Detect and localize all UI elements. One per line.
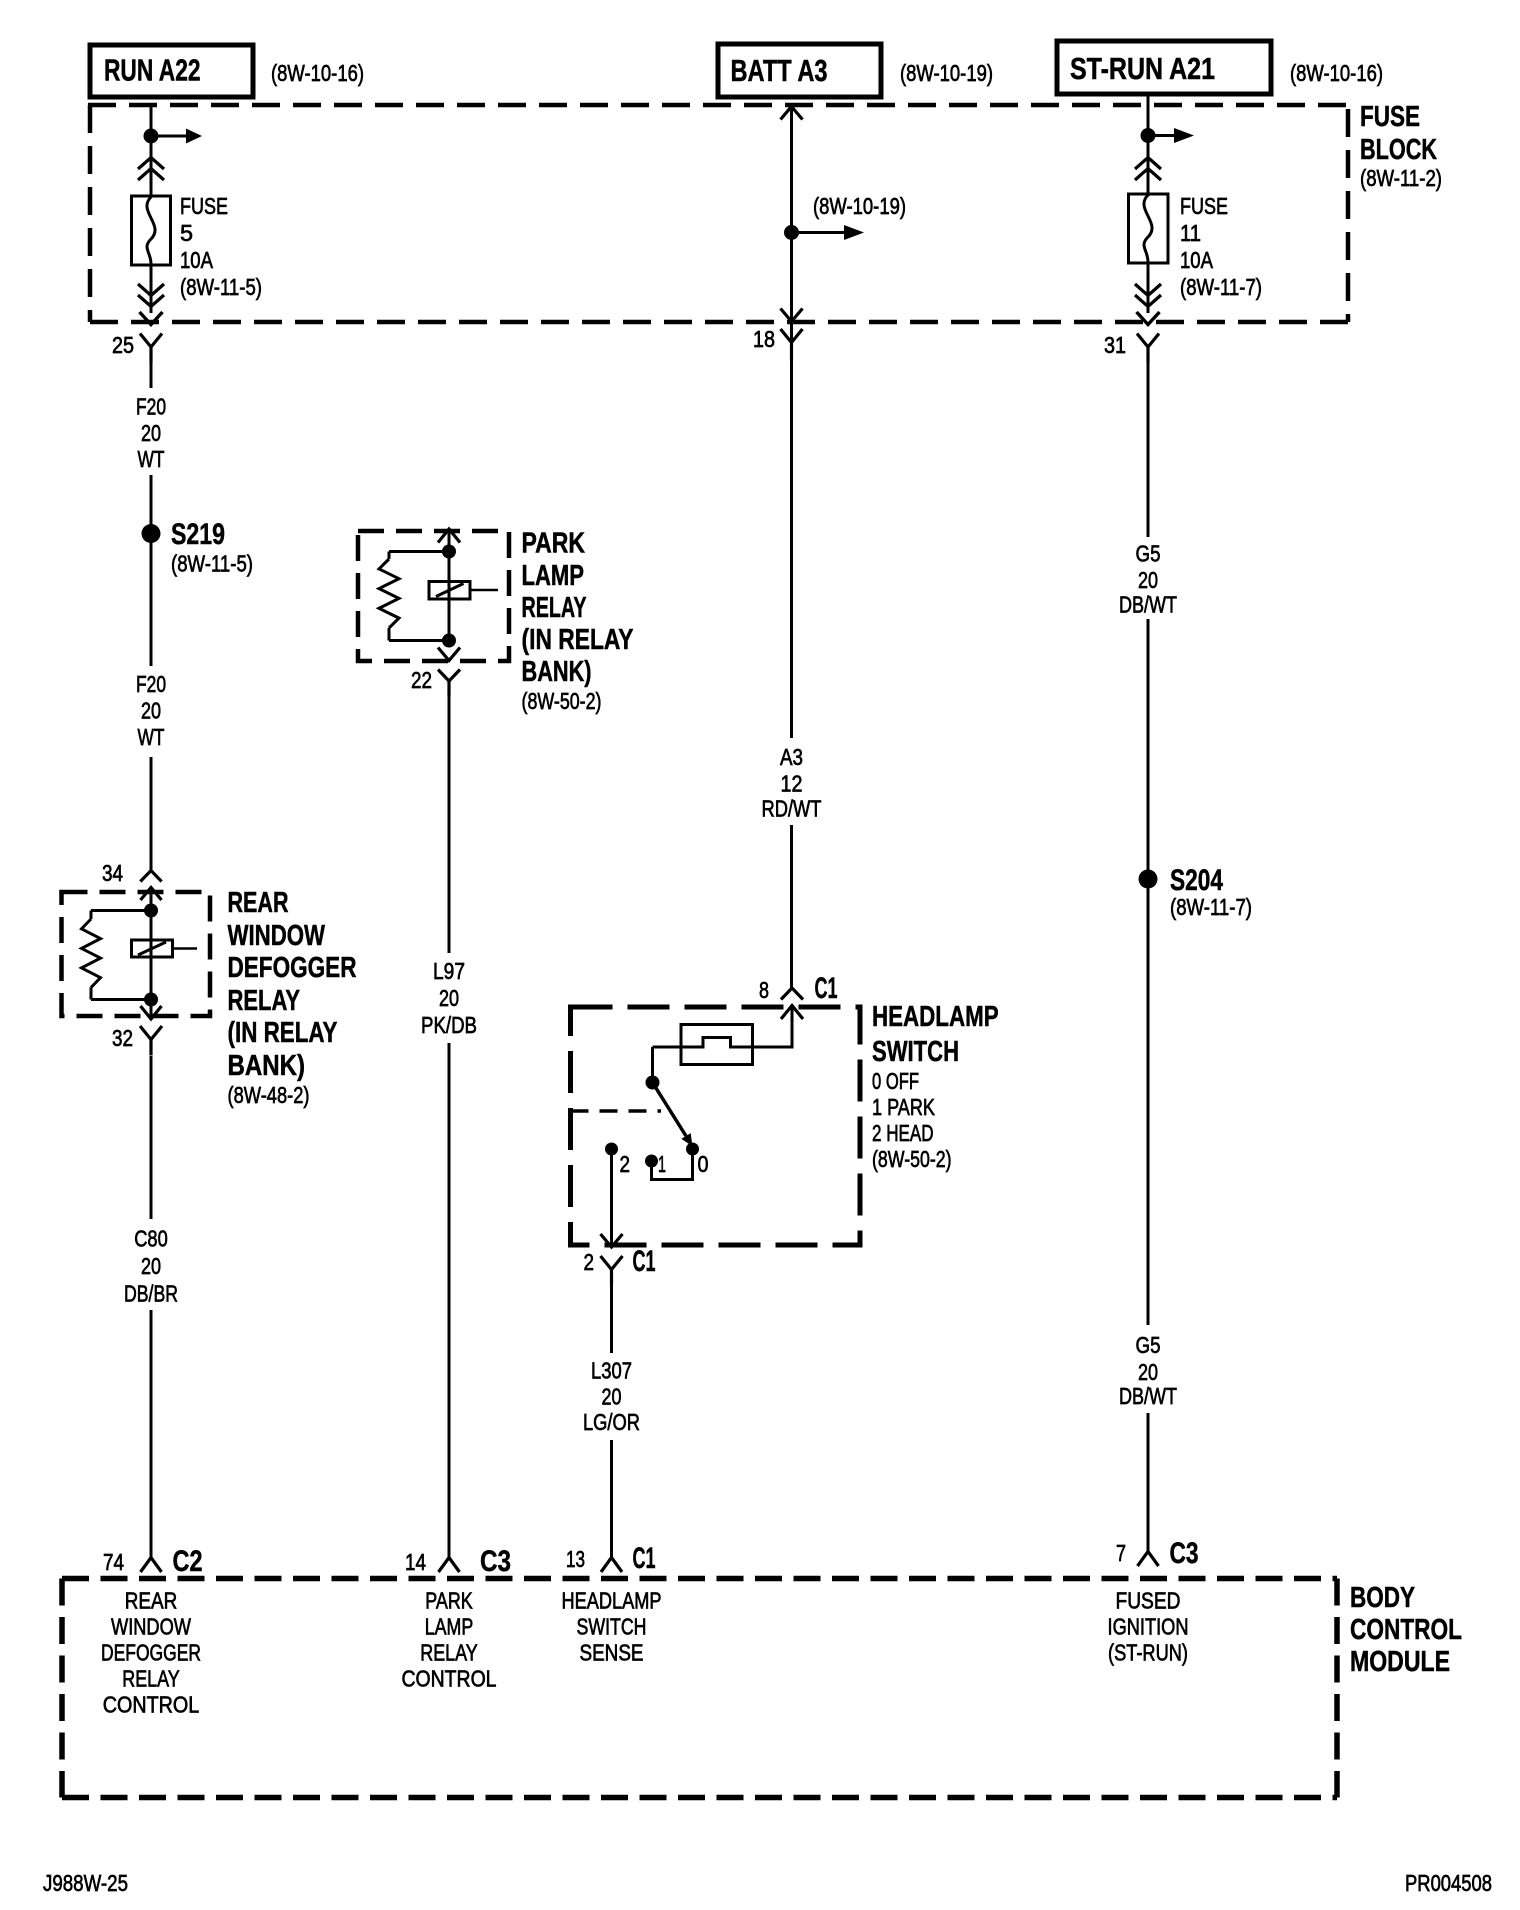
svg-text:25: 25 xyxy=(112,332,134,358)
svg-text:(IN RELAY: (IN RELAY xyxy=(522,624,634,656)
svg-text:FUSED: FUSED xyxy=(1116,1588,1181,1614)
svg-text:SWITCH: SWITCH xyxy=(577,1614,647,1640)
svg-text:C1: C1 xyxy=(815,972,838,1005)
svg-text:IGNITION: IGNITION xyxy=(1108,1614,1189,1640)
svg-text:0: 0 xyxy=(698,1151,709,1177)
svg-text:SWITCH: SWITCH xyxy=(872,1036,959,1068)
svg-text:REAR: REAR xyxy=(228,887,289,919)
svg-text:20: 20 xyxy=(602,1384,622,1410)
svg-text:F20: F20 xyxy=(136,671,166,697)
svg-text:2: 2 xyxy=(584,1249,595,1275)
svg-text:C3: C3 xyxy=(480,1545,511,1578)
svg-text:DB/WT: DB/WT xyxy=(1119,1383,1177,1409)
svg-text:0 OFF: 0 OFF xyxy=(872,1068,919,1094)
svg-text:2 HEAD: 2 HEAD xyxy=(872,1120,934,1146)
svg-text:20: 20 xyxy=(141,1253,161,1279)
svg-text:FUSE: FUSE xyxy=(180,193,228,219)
svg-text:C80: C80 xyxy=(134,1226,168,1252)
svg-text:LG/OR: LG/OR xyxy=(583,1409,640,1435)
svg-text:SENSE: SENSE xyxy=(580,1640,644,1666)
svg-text:(8W-10-16): (8W-10-16) xyxy=(1290,60,1383,86)
svg-text:11: 11 xyxy=(1180,220,1201,246)
svg-text:HEADLAMP: HEADLAMP xyxy=(872,1001,999,1033)
svg-text:WINDOW: WINDOW xyxy=(111,1614,192,1640)
svg-text:2: 2 xyxy=(620,1151,631,1177)
svg-text:5: 5 xyxy=(180,220,193,246)
svg-text:LAMP: LAMP xyxy=(522,560,585,592)
svg-text:(8W-10-19): (8W-10-19) xyxy=(813,193,906,219)
svg-text:C2: C2 xyxy=(173,1545,203,1578)
svg-text:(8W-50-2): (8W-50-2) xyxy=(522,688,602,714)
svg-text:HEADLAMP: HEADLAMP xyxy=(562,1588,662,1614)
svg-text:PR004508: PR004508 xyxy=(1405,1870,1492,1896)
svg-text:J988W-25: J988W-25 xyxy=(43,1870,128,1896)
svg-text:(8W-48-2): (8W-48-2) xyxy=(228,1082,310,1108)
svg-text:MODULE: MODULE xyxy=(1350,1646,1450,1678)
svg-text:REAR: REAR xyxy=(125,1588,178,1614)
svg-text:DEFOGGER: DEFOGGER xyxy=(101,1640,201,1666)
svg-text:PARK: PARK xyxy=(522,528,586,560)
svg-text:13: 13 xyxy=(566,1546,585,1572)
svg-text:(8W-50-2): (8W-50-2) xyxy=(872,1146,952,1172)
svg-text:(8W-10-19): (8W-10-19) xyxy=(900,60,993,86)
svg-text:1 PARK: 1 PARK xyxy=(872,1094,935,1120)
svg-text:RUN A22: RUN A22 xyxy=(104,53,201,88)
svg-text:20: 20 xyxy=(439,985,459,1011)
svg-text:G5: G5 xyxy=(1136,1332,1161,1358)
svg-text:10A: 10A xyxy=(180,247,213,273)
svg-text:WT: WT xyxy=(138,724,165,750)
svg-text:(IN RELAY: (IN RELAY xyxy=(228,1017,338,1049)
svg-text:BODY: BODY xyxy=(1350,1582,1415,1614)
svg-text:(8W-10-16): (8W-10-16) xyxy=(271,60,364,86)
svg-text:20: 20 xyxy=(141,698,161,724)
svg-text:DEFOGGER: DEFOGGER xyxy=(228,952,357,984)
svg-text:RELAY: RELAY xyxy=(522,592,587,624)
svg-text:32: 32 xyxy=(112,1025,133,1051)
svg-text:BLOCK: BLOCK xyxy=(1360,134,1437,166)
svg-text:BATT A3: BATT A3 xyxy=(731,53,828,88)
svg-text:CONTROL: CONTROL xyxy=(1350,1614,1462,1646)
svg-text:(8W-11-7): (8W-11-7) xyxy=(1170,894,1252,920)
svg-text:RELAY: RELAY xyxy=(122,1666,180,1692)
svg-text:WT: WT xyxy=(138,446,165,472)
svg-text:C3: C3 xyxy=(1170,1537,1199,1570)
svg-text:(8W-11-5): (8W-11-5) xyxy=(171,551,253,577)
svg-text:74: 74 xyxy=(103,1549,124,1575)
svg-text:(ST-RUN): (ST-RUN) xyxy=(1108,1640,1188,1666)
svg-text:F20: F20 xyxy=(136,394,166,420)
svg-text:14: 14 xyxy=(405,1549,426,1575)
svg-text:A3: A3 xyxy=(780,744,803,770)
svg-text:LAMP: LAMP xyxy=(425,1614,474,1640)
svg-text:PK/DB: PK/DB xyxy=(421,1012,477,1038)
svg-text:FUSE: FUSE xyxy=(1180,193,1228,219)
svg-text:RELAY: RELAY xyxy=(420,1640,478,1666)
svg-text:7: 7 xyxy=(1116,1540,1126,1566)
svg-text:RD/WT: RD/WT xyxy=(762,796,822,822)
svg-text:(8W-11-5): (8W-11-5) xyxy=(180,274,262,300)
svg-text:20: 20 xyxy=(1138,567,1158,593)
svg-text:10A: 10A xyxy=(1180,247,1213,273)
svg-text:18: 18 xyxy=(753,326,775,352)
svg-text:DB/WT: DB/WT xyxy=(1119,592,1177,618)
svg-text:31: 31 xyxy=(1104,332,1126,358)
svg-text:C1: C1 xyxy=(633,1542,656,1575)
svg-text:BANK): BANK) xyxy=(522,656,592,688)
svg-text:G5: G5 xyxy=(1136,541,1161,567)
svg-text:L97: L97 xyxy=(433,958,465,984)
svg-text:12: 12 xyxy=(781,771,803,797)
svg-text:CONTROL: CONTROL xyxy=(103,1692,200,1718)
svg-text:BANK): BANK) xyxy=(228,1050,306,1082)
svg-text:WINDOW: WINDOW xyxy=(228,920,326,952)
svg-text:34: 34 xyxy=(102,860,123,886)
svg-text:DB/BR: DB/BR xyxy=(124,1281,178,1307)
svg-text:PARK: PARK xyxy=(425,1588,473,1614)
svg-text:C1: C1 xyxy=(633,1245,656,1278)
svg-text:(8W-11-7): (8W-11-7) xyxy=(1180,274,1262,300)
svg-text:22: 22 xyxy=(411,667,432,693)
svg-text:L307: L307 xyxy=(591,1358,632,1384)
svg-text:20: 20 xyxy=(1138,1359,1158,1385)
svg-text:20: 20 xyxy=(141,420,161,446)
svg-text:RELAY: RELAY xyxy=(228,985,301,1017)
svg-text:8: 8 xyxy=(759,977,769,1003)
svg-text:S219: S219 xyxy=(171,518,225,551)
svg-text:1: 1 xyxy=(658,1151,666,1177)
svg-text:CONTROL: CONTROL xyxy=(402,1666,497,1692)
svg-text:(8W-11-2): (8W-11-2) xyxy=(1360,165,1442,191)
svg-text:S204: S204 xyxy=(1170,864,1223,897)
svg-text:ST-RUN A21: ST-RUN A21 xyxy=(1070,51,1215,86)
svg-text:FUSE: FUSE xyxy=(1360,101,1420,133)
